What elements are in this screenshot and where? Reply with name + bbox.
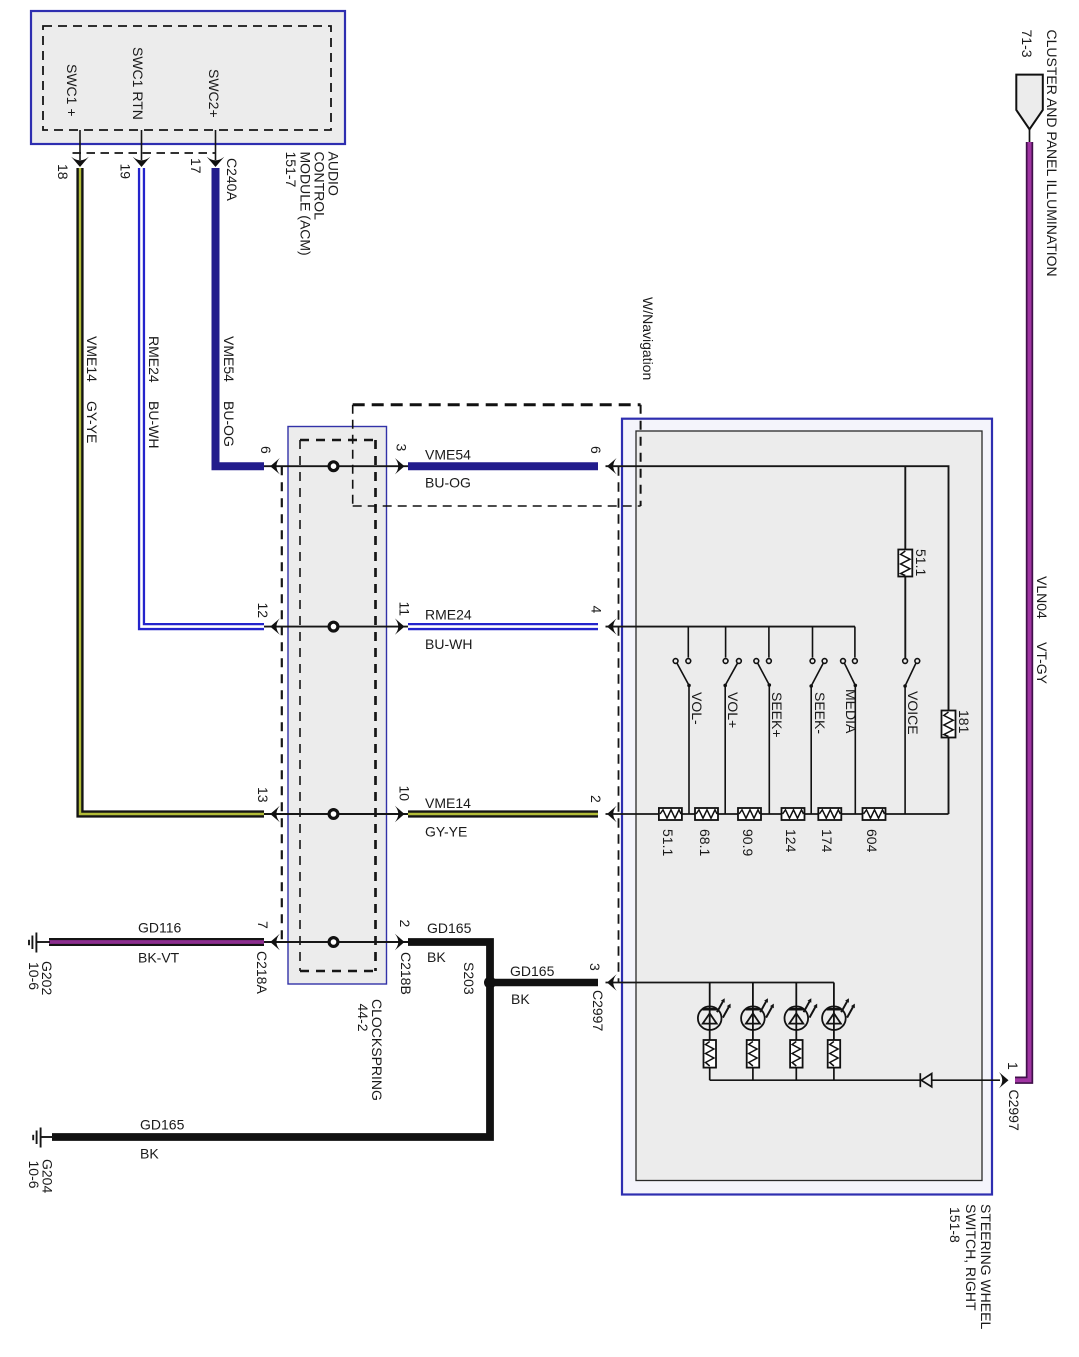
svg-text:SWC1 +: SWC1 + [64, 64, 80, 117]
svg-text:W/Navigation: W/Navigation [640, 297, 656, 380]
arrow pin 11 right [395, 618, 405, 634]
connector C240A dashed line [73, 152, 216, 154]
arrow pin 18 [71, 157, 89, 167]
svg-text:VME14: VME14 [425, 795, 471, 811]
svg-text:51.1: 51.1 [913, 549, 929, 576]
LED lamp 1 [698, 983, 731, 1041]
branch to resistor 51.1 top [904, 466, 906, 658]
svg-text:C218B: C218B [398, 952, 414, 995]
svg-text:MEDIA: MEDIA [843, 689, 859, 734]
svg-text:BU-WH: BU-WH [425, 636, 472, 652]
LED lamp 3 [785, 983, 818, 1041]
LED return bus [710, 1079, 920, 1081]
svg-text:VT-GY: VT-GY [1034, 642, 1050, 685]
svg-text:17: 17 [188, 158, 204, 174]
arrow pin 6 left [270, 458, 280, 474]
svg-text:SWITCH, RIGHT: SWITCH, RIGHT [963, 1204, 979, 1311]
svg-text:BU-OG: BU-OG [425, 475, 471, 491]
wire RME24 BU-WH vertical from ACM pin 19 [142, 168, 265, 627]
svg-text:3: 3 [394, 444, 410, 452]
svg-text:12: 12 [255, 603, 271, 619]
svg-text:RME24: RME24 [146, 336, 162, 383]
arrow switch pin 2 [607, 806, 617, 822]
wire VLN04 VT-GY [1015, 142, 1030, 1080]
arrow switch pin 3 [607, 974, 617, 990]
LED lamp 2 [741, 983, 774, 1041]
svg-text:151-7: 151-7 [283, 152, 299, 188]
svg-text:BK: BK [140, 1146, 159, 1162]
steering wheel switch box inner [636, 431, 982, 1181]
svg-text:90.9: 90.9 [740, 829, 756, 856]
arrow pin 3 right [395, 458, 405, 474]
resistor 124 [782, 808, 805, 820]
svg-text:GD165: GD165 [510, 963, 555, 979]
LED resistor 3 [790, 1040, 803, 1080]
switch VOL- [673, 627, 691, 814]
audio control module ACM box [31, 11, 345, 144]
arrow pin 10 right [395, 806, 405, 822]
splice S203 [484, 977, 496, 989]
resistor 51.1 ladder [659, 808, 682, 820]
connector C2997 dashed line [618, 466, 620, 982]
svg-text:VME14: VME14 [84, 336, 100, 382]
svg-text:VOL+: VOL+ [725, 692, 741, 728]
svg-text:BK: BK [511, 991, 530, 1007]
arrow pin 13 left [270, 806, 280, 822]
ground G204 [33, 1128, 54, 1148]
wire through clockspring row 2 [264, 626, 408, 628]
arrow switch pin 4 [607, 618, 617, 634]
wire through clockspring row 1 [264, 465, 408, 467]
svg-text:10-6: 10-6 [26, 1161, 42, 1189]
svg-text:SEEK+: SEEK+ [769, 692, 785, 738]
resistor 174 [818, 808, 841, 820]
resistor 68.1 [695, 808, 718, 820]
svg-text:VOL-: VOL- [689, 692, 705, 725]
svg-text:VOICE: VOICE [905, 691, 921, 735]
switch MEDIA [841, 627, 858, 814]
pin stub SWC1+ [79, 130, 81, 160]
svg-text:BK-VT: BK-VT [138, 950, 180, 966]
svg-text:7: 7 [255, 921, 271, 929]
svg-text:2: 2 [397, 920, 413, 928]
svg-text:C2997: C2997 [590, 990, 606, 1031]
W/Navigation dashed box right [640, 405, 642, 506]
off-page flag cluster and panel illumination [1016, 75, 1043, 130]
wire through clockspring row 4 [264, 941, 408, 943]
wire GD116 BK-VT to ground G202 [49, 938, 264, 946]
svg-text:44-2: 44-2 [355, 1004, 371, 1032]
diode [920, 1073, 1000, 1087]
clockspring ring row 3 [329, 810, 338, 819]
svg-text:VME54: VME54 [425, 447, 471, 463]
arrow switch pin 6 [607, 458, 617, 474]
wire GD165 BK from C218B with corner down to ground run [52, 942, 490, 1137]
resistor 90.9 [738, 808, 761, 820]
svg-text:1: 1 [1005, 1062, 1021, 1070]
svg-text:71-3: 71-3 [1019, 30, 1035, 58]
svg-text:C240A: C240A [224, 158, 240, 201]
svg-text:VME54: VME54 [221, 336, 237, 382]
svg-text:STEERING WHEEL: STEERING WHEEL [978, 1204, 994, 1329]
svg-text:GY-YE: GY-YE [84, 401, 100, 443]
svg-text:BU-WH: BU-WH [146, 401, 162, 448]
svg-text:VLN04: VLN04 [1034, 576, 1050, 619]
pin stub SWC2+ [215, 130, 217, 160]
internal VME54 bus [606, 466, 949, 814]
switch SEEK- [810, 627, 827, 814]
LED resistor 1 [704, 1040, 717, 1080]
ground G202 [29, 933, 50, 953]
resistor 604 [863, 808, 886, 820]
svg-text:C218A: C218A [254, 951, 270, 994]
wire through clockspring row 3 [264, 813, 408, 815]
svg-text:151-8: 151-8 [947, 1207, 963, 1243]
resistor 51.1 top [898, 550, 912, 577]
arrow pin 19 [133, 157, 151, 167]
svg-text:RME24: RME24 [425, 607, 472, 623]
svg-text:BK: BK [427, 949, 446, 965]
internal RME24 bus [606, 626, 856, 628]
switch SEEK+ [754, 627, 771, 814]
svg-text:SWC1 RTN: SWC1 RTN [130, 47, 146, 120]
flag stub [1029, 129, 1031, 143]
arrow pin 2 right [395, 934, 405, 950]
svg-text:18: 18 [55, 164, 71, 180]
switch VOICE [903, 659, 920, 814]
wire VME14 GY-YE horizontal [408, 810, 598, 817]
svg-text:181: 181 [956, 710, 972, 734]
internal GD165 lamp feed bus [606, 982, 834, 984]
W/Navigation dashed box top [353, 403, 641, 406]
internal VME14 resistor ladder bus [606, 813, 949, 815]
arrow pin 7 left [270, 934, 280, 950]
svg-text:51.1: 51.1 [660, 829, 676, 856]
svg-text:19: 19 [118, 164, 134, 180]
clockspring box [288, 427, 387, 985]
svg-text:SWC2+: SWC2+ [206, 69, 222, 118]
steering wheel switch box outer [622, 419, 992, 1195]
svg-text:GY-YE: GY-YE [425, 824, 467, 840]
svg-text:CLUSTER AND PANEL ILLUMINATION: CLUSTER AND PANEL ILLUMINATION [1044, 30, 1060, 277]
svg-text:6: 6 [588, 446, 604, 454]
svg-text:GD165: GD165 [427, 920, 472, 936]
svg-text:10: 10 [397, 786, 413, 802]
svg-text:11: 11 [397, 602, 413, 617]
svg-text:2: 2 [588, 795, 604, 803]
svg-text:GD165: GD165 [140, 1117, 185, 1133]
wire GD165 BK branch from S203 to switch [490, 979, 598, 986]
svg-text:604: 604 [864, 829, 880, 853]
wire VME54 BU-OG vertical from ACM pin 17 [216, 168, 265, 466]
LED resistor 4 [828, 1040, 841, 1080]
svg-text:124: 124 [783, 829, 799, 853]
svg-text:SEEK-: SEEK- [812, 692, 828, 734]
clockspring ring row 4 [329, 938, 338, 947]
W/Navigation dashed box left [352, 405, 354, 506]
svg-text:6: 6 [258, 446, 274, 454]
connector C218A dashed line [281, 466, 283, 942]
wire RME24 BU-WH horizontal [408, 623, 598, 630]
clockspring inner dashed rect [299, 440, 301, 971]
switch VOL+ [723, 627, 741, 814]
svg-text:C2997: C2997 [1006, 1090, 1022, 1131]
arrow pin 17 [207, 157, 225, 167]
resistor 181 [942, 711, 956, 738]
svg-text:S203: S203 [461, 962, 477, 995]
W/Navigation dashed box bottom [353, 505, 641, 507]
svg-text:10-6: 10-6 [26, 962, 42, 990]
arrow switch pin 1 right [999, 1072, 1009, 1088]
LED resistor 2 [747, 1040, 760, 1080]
svg-text:174: 174 [819, 829, 835, 853]
pin stub SWC1 RTN [141, 130, 143, 160]
arrow pin 12 left [270, 618, 280, 634]
svg-text:BU-OG: BU-OG [221, 401, 237, 447]
wire VME54 BU-OG horizontal [408, 462, 598, 470]
ACM inner dashed rect [43, 26, 331, 130]
wire VME14 GY-YE vertical from ACM pin 18 [80, 168, 264, 814]
svg-text:13: 13 [255, 787, 271, 803]
svg-text:3: 3 [587, 963, 603, 971]
LED lamp 4 [822, 983, 855, 1041]
svg-text:4: 4 [589, 606, 605, 614]
svg-text:68.1: 68.1 [697, 829, 713, 856]
clockspring ring row 1 [329, 462, 338, 471]
svg-text:GD116: GD116 [138, 920, 182, 936]
clockspring ring row 2 [329, 622, 338, 631]
